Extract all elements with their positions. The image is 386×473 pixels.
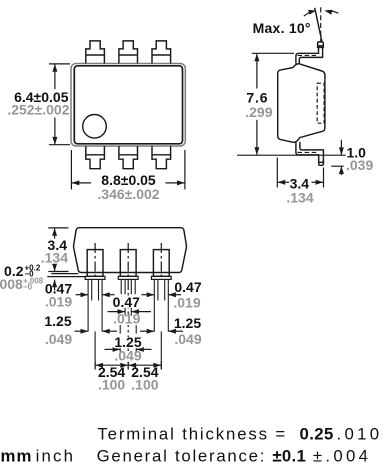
pin 6 bottom (top view) — [86, 146, 105, 169]
dimension 1.0 lower tick — [331, 165, 343, 167]
svg-text:.134: .134 — [286, 189, 313, 205]
svg-text:0.47: 0.47 — [113, 294, 140, 310]
svg-text:1.25: 1.25 — [44, 313, 71, 329]
dimension 1.0 lower arrow — [340, 167, 342, 175]
svg-text:.049: .049 — [174, 331, 201, 347]
angle max line solid tilted — [315, 8, 322, 42]
top view body outer outline — [71, 64, 185, 147]
side view bottom lead foot cap — [319, 160, 324, 165]
lead 1 bottom view (left) — [85, 243, 105, 369]
svg-text:.134: .134 — [41, 250, 68, 266]
svg-text:General tolerance:: General tolerance: — [97, 446, 267, 465]
svg-text:.100: .100 — [98, 377, 125, 393]
dimension 3.4 bottom view extension lines — [48, 227, 68, 229]
svg-text:.039: .039 — [346, 157, 373, 173]
dimension 0.47 left line and arrows — [76, 294, 88, 296]
dimension 0.2 reference lines — [51, 273, 78, 275]
svg-text:.346±.002: .346±.002 — [97, 186, 159, 202]
pin 1 marker circle — [83, 115, 107, 139]
bottom view body outline — [74, 228, 187, 273]
svg-text:.299: .299 — [245, 104, 272, 120]
dimension 1.25 left line and arrows — [75, 330, 88, 332]
side view top lead dashed centerline — [298, 54, 319, 56]
svg-text:Max. 10°: Max. 10° — [253, 20, 311, 36]
svg-text:.049: .049 — [45, 331, 72, 347]
dimension 0.2 lower arrow — [54, 280, 56, 291]
side view mold seam dashed rect — [317, 83, 324, 123]
dimension 3.4 side line and arrows — [278, 181, 289, 183]
svg-text:Terminal thickness =: Terminal thickness = — [97, 425, 287, 444]
top view body inner outline — [74, 66, 182, 144]
svg-text:±.004: ±.004 — [313, 446, 371, 465]
lead 3 bottom view (right) — [151, 243, 171, 369]
svg-text:±0.1: ±0.1 — [272, 446, 306, 465]
side view bottom lead — [296, 142, 319, 160]
pin 4 bottom (top view) — [152, 146, 171, 169]
seating plane line — [237, 154, 346, 156]
pin 2 top (top view) — [119, 41, 138, 64]
dimension 0.47 middle line and arrows — [108, 311, 125, 313]
svg-text:0.25: 0.25 — [300, 425, 334, 444]
side view top lead — [296, 47, 319, 63]
white knockouts for middle column labels — [113, 297, 141, 308]
svg-text:1.25: 1.25 — [174, 315, 201, 331]
dimension 8.8 extension lines — [70, 150, 72, 190]
svg-text:inch: inch — [36, 446, 76, 465]
dimension 7.6 extension line top — [252, 52, 294, 54]
svg-text:.019: .019 — [173, 295, 200, 311]
dimension 6.4 line and arrows — [54, 64, 56, 89]
angle arc right with arrow — [328, 11, 339, 14]
svg-text:−0: −0 — [23, 283, 33, 292]
side view top lead foot cap — [318, 42, 324, 48]
dimension 3.4 side extension lines — [276, 158, 278, 188]
angle arc left with arrow — [304, 11, 314, 16]
dimension 1.0 upper arrow — [340, 140, 342, 155]
angle reference dashed line — [320, 7, 322, 42]
svg-text:.008: .008 — [0, 276, 23, 292]
svg-text:0.47: 0.47 — [174, 279, 201, 295]
side view bottom lead dashed centerline — [298, 151, 318, 153]
svg-text:mm: mm — [1, 446, 33, 465]
dimension 0.47 right line and arrows — [142, 294, 155, 296]
dimension 7.6 line and arrows — [256, 54, 258, 89]
lead 2 bottom view (middle) — [118, 243, 138, 369]
svg-text:.049: .049 — [114, 348, 141, 364]
dimension 2.54 extension bars — [94, 361, 96, 369]
dimension 8.8 line and arrows — [72, 182, 91, 184]
pin 5 bottom (top view) — [119, 146, 138, 169]
svg-text:.019: .019 — [113, 311, 140, 327]
svg-text:.019: .019 — [45, 293, 72, 309]
svg-text:.252±.002: .252±.002 — [7, 102, 69, 118]
svg-text:.010: .010 — [337, 425, 383, 444]
pin 3 top (top view) — [152, 41, 171, 64]
dimension 1.25 middle line and arrows — [105, 348, 121, 350]
svg-text:7.6: 7.6 — [246, 90, 268, 106]
dimension 2.54 spans with arrows — [95, 364, 128, 366]
dimension 3.4 bottom view line and arrows — [54, 228, 56, 238]
dimension 6.4 extension lines — [49, 63, 70, 65]
svg-text:.100: .100 — [131, 377, 158, 393]
side view body outline — [278, 64, 325, 143]
dimension 1.25 right line and arrows — [140, 330, 154, 332]
pin 1 top (top view) — [86, 41, 105, 64]
